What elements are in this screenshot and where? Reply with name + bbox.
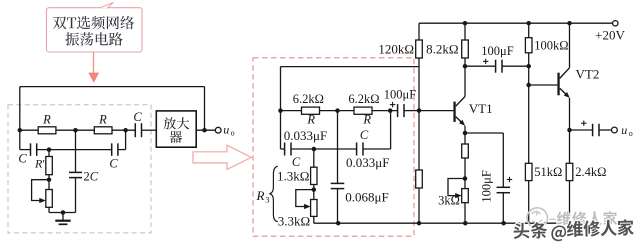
dashed box around twin-T network (left) xyxy=(8,105,151,233)
capacitor C 0.033 (second) xyxy=(356,143,358,156)
svg-text:100μF: 100μF xyxy=(384,87,416,101)
twin-T cap row xyxy=(281,148,285,150)
terminal u_o (right) xyxy=(612,127,618,133)
svg-text:2C: 2C xyxy=(84,170,99,184)
terminal u_o (left) xyxy=(215,127,221,133)
svg-text:R: R xyxy=(256,188,265,203)
twin-T main line xyxy=(281,110,302,112)
capacitor C (lower right) xyxy=(111,143,113,156)
twin-T left vertical xyxy=(280,67,282,149)
svg-text:100μF: 100μF xyxy=(481,44,513,58)
light watermark text 维修人家 xyxy=(557,211,617,225)
resistor 100k xyxy=(525,38,532,53)
svg-text:C: C xyxy=(292,155,301,169)
output coupling cap xyxy=(570,129,593,131)
node R-R junction xyxy=(335,108,340,113)
svg-text:8.2kΩ: 8.2kΩ xyxy=(426,41,458,56)
capacitor 2C xyxy=(69,130,99,212)
resistor R' xyxy=(48,150,50,157)
resistor lower bias (unlabeled) xyxy=(416,170,423,188)
wire: main line segments xyxy=(20,129,38,131)
node collector/cap xyxy=(463,64,468,69)
svg-text:R: R xyxy=(306,113,315,127)
red dashed box (right twin-T) xyxy=(253,58,414,236)
node amp output xyxy=(202,128,207,133)
resistor 8.2k xyxy=(462,40,469,58)
callout box 双T选频网络振荡电路 xyxy=(47,2,143,52)
svg-text:VT1: VT1 xyxy=(469,101,493,116)
ground xyxy=(55,210,70,224)
node before 100uF xyxy=(388,108,393,113)
wire: right vertical feedback xyxy=(204,87,206,131)
capacitor 100uF (twin-T out) xyxy=(397,104,399,117)
svg-text:R′: R′ xyxy=(34,156,45,170)
resistor 2.4k xyxy=(566,163,573,180)
svg-text:3: 3 xyxy=(265,195,269,205)
svg-text:o: o xyxy=(231,129,235,138)
svg-text:0.068μF: 0.068μF xyxy=(345,189,388,204)
potentiometer 3.3k xyxy=(311,200,317,217)
svg-text:100μF: 100μF xyxy=(480,170,494,202)
node cap/100k xyxy=(526,64,531,69)
collector column x=465 xyxy=(464,23,466,40)
svg-text:2.4kΩ: 2.4kΩ xyxy=(575,165,606,179)
potentiometer 3k xyxy=(462,189,469,203)
bias column x=419 wires xyxy=(418,23,420,40)
svg-text:6.2kΩ: 6.2kΩ xyxy=(348,92,379,106)
svg-text:R: R xyxy=(42,113,51,127)
node C-C junction xyxy=(47,147,52,152)
svg-text:6.2kΩ: 6.2kΩ xyxy=(293,92,324,106)
wire to VT1 base xyxy=(419,110,453,112)
svg-text:R: R xyxy=(362,113,371,127)
VT1 emitter wire xyxy=(464,126,466,144)
svg-text:1.3kΩ: 1.3kΩ xyxy=(277,168,309,183)
wire amp output xyxy=(196,129,215,131)
VT2 collector wire xyxy=(569,23,571,68)
svg-text:0.033μF: 0.033μF xyxy=(284,128,327,143)
capacitor 100uF (interstage) xyxy=(495,60,497,73)
emitter bypass branch xyxy=(465,132,503,134)
svg-text:+20V: +20V xyxy=(595,28,625,43)
svg-text:C: C xyxy=(133,110,142,124)
svg-text:R: R xyxy=(98,113,107,127)
svg-text:u: u xyxy=(621,123,627,137)
big hollow arrow xyxy=(193,145,251,169)
node dots on main line xyxy=(18,128,23,133)
wire: pot bottom to ground rail xyxy=(48,207,50,212)
resistor R 6.2k (second) xyxy=(354,107,372,114)
dark watermark 头条@维修人家 xyxy=(513,219,634,242)
svg-text:o: o xyxy=(629,129,633,138)
terminal +20V xyxy=(613,21,618,26)
capacitor C (lower left) xyxy=(30,143,32,156)
resistor R (second, left diagram) xyxy=(94,127,112,134)
node between 1.3k and pot xyxy=(313,185,315,200)
svg-text:C: C xyxy=(360,128,369,142)
node C-C junction xyxy=(312,147,317,152)
svg-text:120kΩ: 120kΩ xyxy=(378,41,414,56)
svg-text:C: C xyxy=(18,152,27,166)
+20V supply rail xyxy=(419,22,613,24)
transistor VT2 xyxy=(529,66,600,98)
wire to coupling cap xyxy=(465,65,496,67)
wire: capacitor row xyxy=(20,149,31,151)
resistor 51k xyxy=(525,163,532,180)
twin-T top bypass wire xyxy=(281,66,420,68)
svg-text:C: C xyxy=(109,157,118,171)
resistor 1.3k xyxy=(313,149,315,167)
potentiometer (left diagram) xyxy=(46,190,53,208)
wire: left vertical xyxy=(19,87,21,150)
amplifier box 放大器 xyxy=(156,111,196,147)
svg-text:0.033μF: 0.033μF xyxy=(346,155,389,170)
svg-text:3.3kΩ: 3.3kΩ xyxy=(278,213,310,228)
resistor R (first, left diagram) xyxy=(38,127,56,134)
R3 brace label xyxy=(269,166,277,221)
node base VT2 xyxy=(526,83,531,88)
capacitor C 0.033 (first) xyxy=(284,143,286,156)
capacitor C (series, before amplifier) xyxy=(134,123,136,137)
VT2 emitter wire xyxy=(569,98,571,163)
svg-text:51kΩ: 51kΩ xyxy=(534,165,562,179)
bottom ground rail xyxy=(314,222,570,224)
wire + node below R-prime xyxy=(48,175,50,190)
resistor R 6.2k (first) xyxy=(302,107,320,114)
light watermark logo xyxy=(527,208,555,228)
transistor VT1 xyxy=(453,97,492,126)
red callout arrow xyxy=(88,52,99,83)
capacitor 0.068uF xyxy=(331,111,389,224)
svg-text:100kΩ: 100kΩ xyxy=(534,38,568,52)
column x=528.7 (100k / 51k) xyxy=(528,23,530,38)
capacitor 100uF bypass xyxy=(497,186,511,188)
emitter resistor (unlabeled) xyxy=(462,144,469,158)
wire: feedback top xyxy=(20,86,205,88)
svg-text:u: u xyxy=(223,123,229,137)
svg-text:3kΩ: 3kΩ xyxy=(438,194,460,208)
node base VT1 / cap xyxy=(417,108,422,113)
svg-text:VT2: VT2 xyxy=(576,66,600,81)
resistor 120k xyxy=(416,40,423,58)
